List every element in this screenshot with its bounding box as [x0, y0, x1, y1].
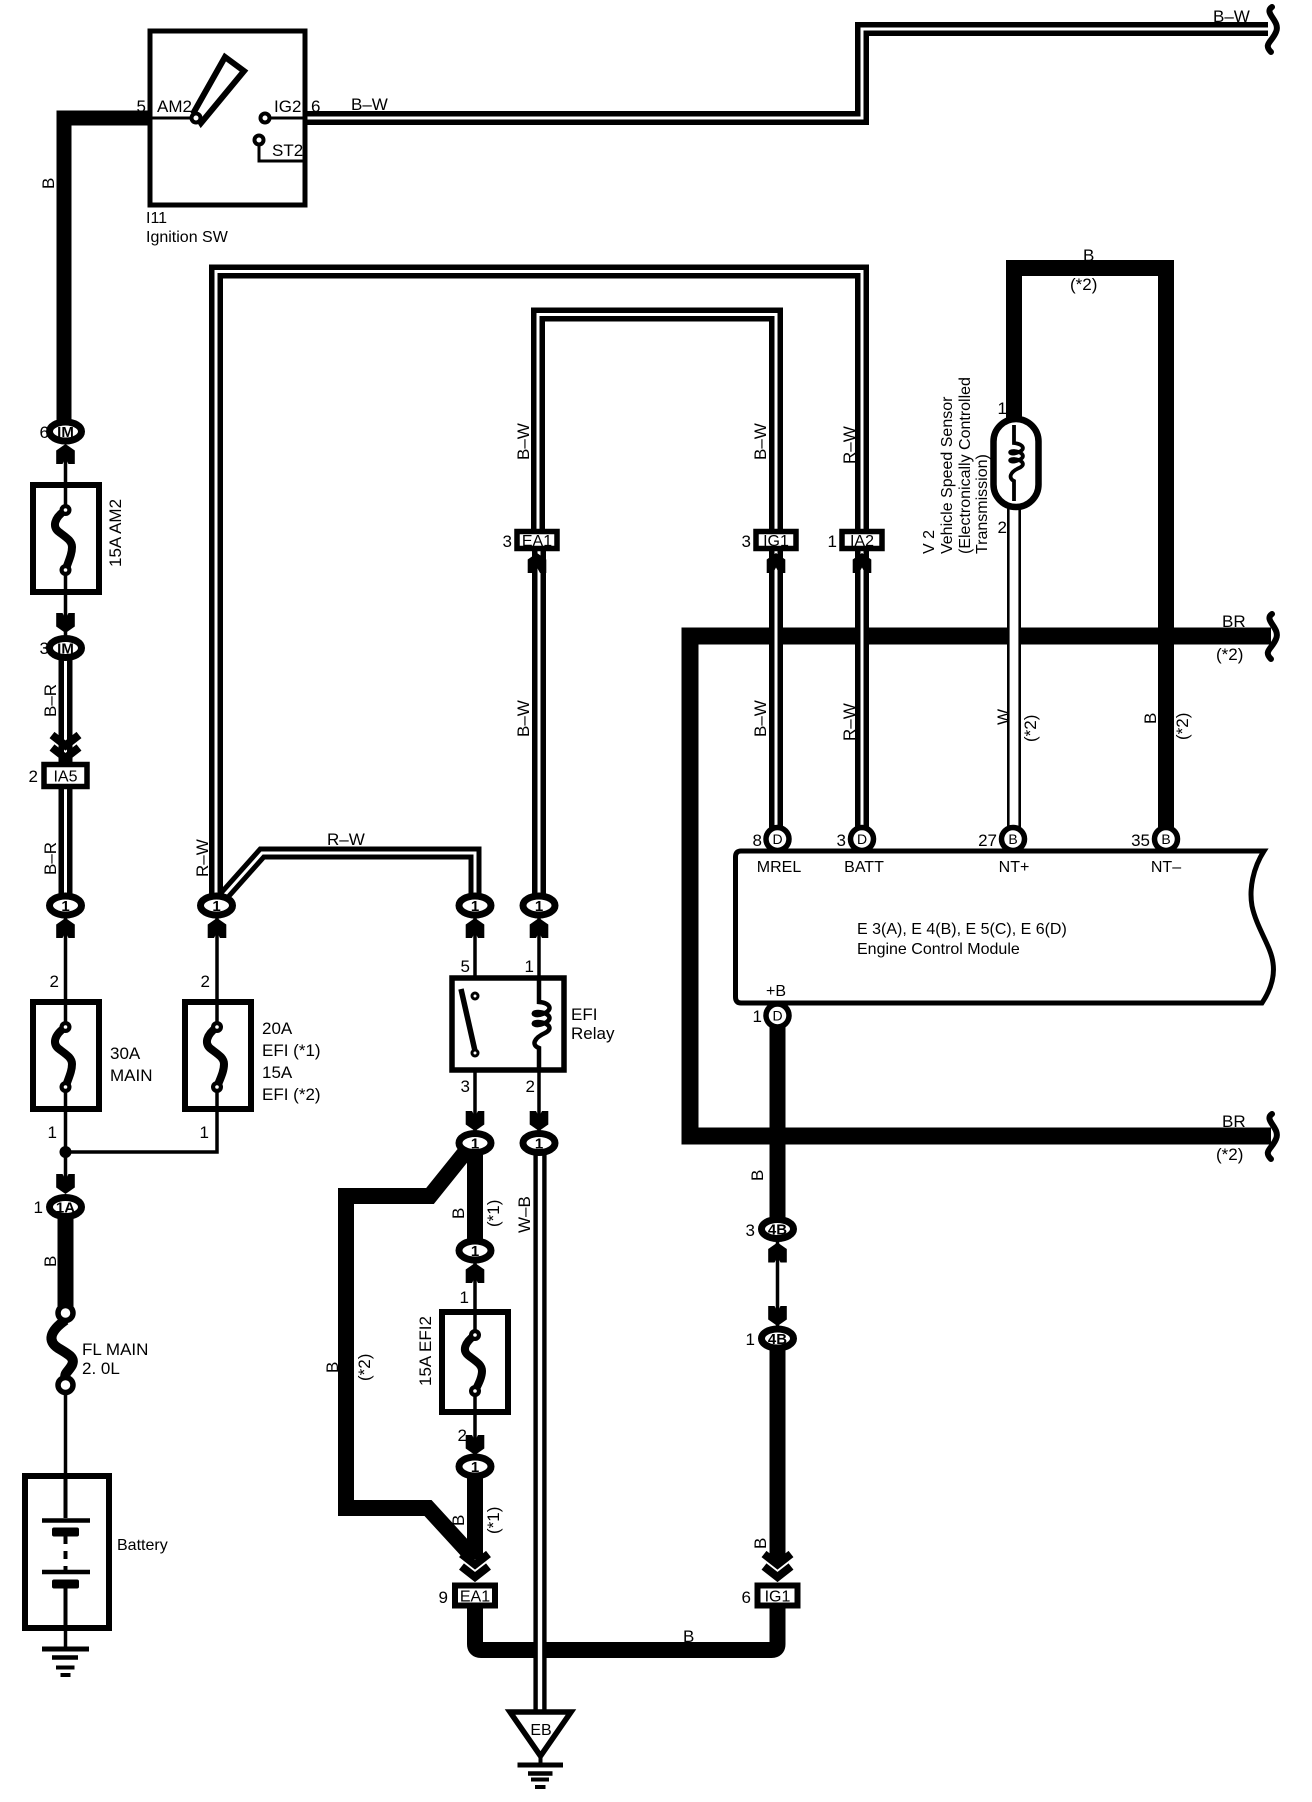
arrow down into 1 4B [768, 1306, 787, 1326]
svg-text:B: B [39, 178, 58, 189]
ignition switch AM2 contact [192, 114, 201, 123]
svg-text:1: 1 [998, 399, 1007, 418]
svg-text:3: 3 [503, 532, 512, 551]
torn end BR upper [1268, 614, 1277, 659]
svg-text:5: 5 [461, 957, 470, 976]
svg-text:2: 2 [201, 972, 210, 991]
wire oval to fuse 15A EFI2 [473, 1258, 477, 1340]
junction oval 1 (relay pin2) [523, 1134, 555, 1153]
svg-text:B: B [683, 1627, 694, 1646]
torn end B-W top right [1268, 7, 1277, 52]
wire junction 1 to fuse 20A EFI pin2 [215, 915, 219, 1030]
wire junction 1 to fuse 30A MAIN [64, 915, 68, 1030]
svg-text:1A: 1A [56, 1200, 75, 1217]
svg-text:2: 2 [458, 1426, 467, 1445]
svg-text:15A: 15A [262, 1063, 293, 1082]
svg-text:1: 1 [471, 898, 479, 915]
svg-text:1: 1 [746, 1330, 755, 1349]
svg-text:1: 1 [200, 1123, 209, 1142]
wire B(*1) relay pin3 to fuse EFI2 [467, 1150, 483, 1244]
connector 1 4B [762, 1329, 794, 1348]
svg-text:EFI (*2): EFI (*2) [262, 1085, 321, 1104]
svg-text:(*2): (*2) [355, 1354, 374, 1381]
svg-text:6: 6 [311, 97, 320, 116]
svg-text:NT–: NT– [1151, 859, 1181, 876]
svg-text:4B: 4B [768, 1331, 787, 1348]
svg-text:1: 1 [471, 1243, 479, 1260]
svg-text:B: B [1008, 831, 1017, 847]
fuse 30A MAIN [33, 1002, 99, 1109]
wire R-W outer loop junction to IA2 [216, 272, 862, 899]
svg-text:FL MAIN: FL MAIN [82, 1340, 148, 1359]
svg-text:IA5: IA5 [53, 769, 77, 786]
svg-text:BR: BR [1222, 612, 1246, 631]
svg-text:1: 1 [61, 898, 69, 915]
arrow up into junction 1 (20A EFI) [208, 918, 227, 938]
svg-text:(*1): (*1) [484, 1507, 503, 1534]
svg-text:4B: 4B [768, 1222, 787, 1239]
relay switch lever [461, 989, 475, 1051]
svg-text:Battery: Battery [117, 1537, 168, 1554]
connector 2 IA5 [44, 765, 87, 787]
svg-text:2: 2 [29, 767, 38, 786]
torn end BR lower [1268, 1114, 1277, 1159]
svg-text:Engine Control Module: Engine Control Module [857, 941, 1020, 958]
wire B-W EA1 to relay pin1 oval [532, 551, 546, 900]
svg-text:1: 1 [525, 957, 534, 976]
svg-text:15A AM2: 15A AM2 [106, 499, 125, 567]
EFI relay box [452, 978, 564, 1070]
connector 9 EA1 [455, 1586, 495, 1606]
arrow up into 6 IM [56, 444, 75, 464]
svg-text:B: B [449, 1208, 468, 1219]
svg-text:B: B [323, 1362, 342, 1373]
ignition switch ST2 contact [255, 136, 264, 145]
wire fuse 30A MAIN pin1 to junction dot [64, 1085, 68, 1152]
wire fuse EFI2 pin2 to oval [473, 1390, 477, 1460]
arrow down into oval relay pin3 [466, 1111, 485, 1131]
arrow up into oval relay pin5 [466, 918, 485, 938]
wire fuse 15A AM2 to 3 IM [64, 568, 68, 636]
svg-text:3: 3 [746, 1221, 755, 1240]
svg-text:EFI: EFI [571, 1005, 597, 1024]
svg-text:B–R: B–R [41, 684, 60, 717]
svg-text:6: 6 [742, 1588, 751, 1607]
svg-text:1: 1 [471, 1136, 479, 1153]
svg-text:EA1: EA1 [460, 1589, 490, 1606]
svg-text:(*2): (*2) [1216, 1145, 1243, 1164]
battery [25, 1476, 109, 1628]
svg-text:3: 3 [837, 831, 846, 850]
oval and box texts [56, 424, 787, 1476]
svg-text:15A EFI2: 15A EFI2 [416, 1316, 435, 1386]
svg-text:35: 35 [1131, 831, 1150, 850]
svg-text:(*2): (*2) [1070, 275, 1097, 294]
svg-text:B: B [41, 1256, 60, 1267]
junction oval 1 (relay pin3) [459, 1134, 491, 1153]
svg-text:IG2: IG2 [274, 97, 301, 116]
svg-text:BR: BR [1222, 1112, 1246, 1131]
svg-text:B: B [1161, 831, 1170, 847]
svg-text:EA1: EA1 [522, 533, 552, 550]
svg-text:D: D [772, 831, 782, 847]
svg-text:8: 8 [753, 831, 762, 850]
connector 3 IG1 [756, 532, 796, 549]
double arrow down into 9 EA1 [462, 1554, 489, 1577]
svg-text:6: 6 [40, 423, 49, 442]
svg-text:W: W [994, 709, 1013, 725]
svg-text:B–W: B–W [514, 700, 533, 737]
arrow up into oval relay pin1 [530, 918, 549, 938]
wire B(*2) V2 pin1 to ECM NT- [1014, 268, 1166, 828]
arrow down into oval below fuse EFI2 [466, 1435, 485, 1455]
arrow down into 3 IM [56, 613, 75, 633]
svg-text:R–W: R–W [327, 830, 365, 849]
ECM pin 35 B NT- [1155, 828, 1178, 851]
svg-text:Ignition SW: Ignition SW [146, 229, 229, 246]
connector 6 IM [50, 422, 82, 441]
wire B(*2) bypass loop [346, 1150, 472, 1556]
double arrow down into 6 IG1 [764, 1554, 791, 1577]
junction oval 1 (above fuse EFI2) [459, 1241, 491, 1260]
ignition switch key lever [194, 57, 244, 123]
junction oval 1 (relay pin1) [523, 896, 555, 915]
ignition switch IG2 contact [261, 114, 270, 123]
relay coil [534, 978, 550, 1070]
arrow down into 1A [56, 1174, 75, 1194]
svg-text:2: 2 [50, 972, 59, 991]
svg-text:1: 1 [535, 898, 543, 915]
svg-text:AM2: AM2 [157, 97, 192, 116]
arrow up into 3 4B [768, 1243, 787, 1263]
svg-text:1: 1 [753, 1007, 762, 1026]
svg-text:1: 1 [34, 1198, 43, 1217]
svg-text:1: 1 [48, 1123, 57, 1142]
svg-text:1: 1 [471, 1459, 479, 1476]
svg-text:R–W: R–W [840, 703, 859, 741]
wire B-W IG1 to ECM MREL [769, 551, 783, 828]
svg-text:W–B: W–B [515, 1196, 534, 1233]
wire B(*1) fuse EFI2 to 9 EA1 [467, 1473, 483, 1559]
arrow up into oval above fuse EFI2 [466, 1263, 485, 1283]
svg-text:IM: IM [57, 424, 74, 441]
wire FL MAIN to battery [64, 1390, 68, 1480]
svg-text:1: 1 [460, 1288, 469, 1307]
svg-text:5: 5 [137, 97, 146, 116]
svg-text:27: 27 [978, 831, 997, 850]
svg-text:(*2): (*2) [1173, 713, 1192, 740]
svg-text:ST2: ST2 [272, 141, 303, 160]
svg-text:+B: +B [766, 983, 786, 1000]
svg-text:B–W: B–W [351, 95, 388, 114]
svg-text:9: 9 [439, 1588, 448, 1607]
ECM pin 1 D +B [766, 1004, 789, 1027]
svg-text:30A: 30A [110, 1044, 141, 1063]
svg-text:IG1: IG1 [765, 1589, 791, 1606]
svg-text:2: 2 [526, 1077, 535, 1096]
wire 6 IM to fuse 15A AM2 [64, 450, 68, 512]
wire BR(*2) loop [690, 636, 1271, 1136]
svg-text:NT+: NT+ [999, 859, 1030, 876]
svg-text:2: 2 [998, 518, 1007, 537]
fuse 20A EFI [185, 1002, 251, 1109]
svg-text:3: 3 [40, 639, 49, 658]
EB ground triangle [510, 1712, 571, 1756]
svg-text:(*2): (*2) [1021, 715, 1040, 742]
wire B ECM +B to 3 4B [770, 1022, 786, 1222]
ground below battery [42, 1649, 89, 1675]
junction oval 1 (below fuse EFI2) [459, 1457, 491, 1476]
arrow down into oval relay pin2 [530, 1111, 549, 1131]
wire R-W branch to EFI relay pin5 [221, 853, 475, 899]
wire B bottom EA1 to IG1 [475, 1605, 778, 1650]
junction dot [60, 1146, 72, 1158]
wire junction dot to fuse 20A EFI [66, 1085, 218, 1152]
V2 vehicle speed sensor capsule [994, 419, 1039, 507]
junction oval 1 (20A EFI) [201, 896, 233, 915]
connector 3 EA1 [517, 532, 557, 549]
fusible link FL MAIN 2.0L [51, 1306, 73, 1393]
wire W V2 pin2 to ECM NT+ [1009, 505, 1020, 828]
svg-text:20A: 20A [262, 1019, 293, 1038]
svg-text:(*2): (*2) [1216, 645, 1243, 664]
ECM pin letters [772, 831, 1170, 1024]
svg-text:EFI (*1): EFI (*1) [262, 1041, 321, 1060]
ignition switch internal wires [150, 117, 305, 120]
arrow up into junction 1 left [56, 918, 75, 938]
svg-text:E 3(A), E 4(B), E 5(C), E 6(D): E 3(A), E 4(B), E 5(C), E 6(D) [857, 921, 1067, 938]
svg-text:Transmission): Transmission) [974, 454, 991, 554]
svg-text:R–W: R–W [840, 426, 859, 464]
wire B-R 3 IM to IA5 to junction 1 [59, 660, 73, 898]
svg-text:B: B [751, 1538, 770, 1549]
svg-text:Vehicle Speed Sensor: Vehicle Speed Sensor [939, 396, 956, 554]
svg-text:MAIN: MAIN [110, 1066, 153, 1085]
svg-text:R–W: R–W [193, 839, 212, 877]
svg-text:B–W: B–W [1213, 7, 1250, 26]
wire junction dot to 1A [64, 1152, 68, 1180]
svg-text:3: 3 [461, 1077, 470, 1096]
svg-text:3: 3 [742, 532, 751, 551]
svg-text:I11: I11 [146, 210, 167, 227]
connector 3 4B [762, 1220, 794, 1239]
svg-text:1: 1 [828, 532, 837, 551]
svg-text:EB: EB [530, 1722, 551, 1739]
wire B-W IG2 to top right [305, 29, 1268, 118]
wire 3 4B to 1 4B [776, 1238, 780, 1330]
wire oval to relay pin5 [473, 915, 477, 993]
wire R-W IA2 to ECM BATT [855, 551, 869, 828]
arrow up into 3 EA1 [528, 553, 547, 573]
fuse 15A AM2 [33, 485, 99, 592]
wire B 1 4B to 6 IG1 [770, 1345, 786, 1560]
wire W-B relay pin2 to EB [536, 1150, 545, 1714]
ECM pin 8 D MREL [766, 828, 789, 851]
arrow up into 3 IG1 [767, 553, 786, 573]
svg-text:D: D [772, 1008, 782, 1024]
arrow up into 1 IA2 [853, 553, 872, 573]
svg-text:B: B [1083, 246, 1094, 265]
svg-text:1: 1 [212, 898, 220, 915]
svg-text:IA2: IA2 [850, 533, 874, 550]
svg-text:(*1): (*1) [484, 1200, 503, 1227]
connector 6 IG1 [758, 1586, 798, 1606]
ECM box [736, 851, 1274, 1003]
svg-text:1: 1 [535, 1136, 543, 1153]
wire oval to relay pin1 [537, 915, 541, 980]
EB ground symbol [518, 1754, 564, 1787]
junction oval 1 (relay pin5) [459, 896, 491, 915]
ECM pin 27 B NT+ [1002, 828, 1025, 851]
svg-text:D: D [857, 831, 867, 847]
svg-text:B: B [748, 1170, 767, 1181]
svg-text:V 2: V 2 [921, 530, 938, 554]
wire battery to ground [64, 1590, 68, 1649]
svg-text:2. 0L: 2. 0L [82, 1359, 120, 1378]
svg-text:B–W: B–W [751, 423, 770, 460]
svg-text:B: B [449, 1515, 468, 1526]
svg-text:BATT: BATT [844, 859, 884, 876]
wire relay pin3 to oval [473, 1056, 477, 1135]
svg-text:B: B [1141, 713, 1160, 724]
svg-text:MREL: MREL [757, 859, 802, 876]
svg-text:(Electronically Controlled: (Electronically Controlled [957, 377, 974, 554]
ECM pin 3 D BATT [851, 828, 874, 851]
wire B ignition AM2 to 6 IM [64, 118, 150, 425]
wire B-W inner loop EA1 to IG1 [538, 315, 776, 541]
svg-text:IG1: IG1 [763, 533, 789, 550]
svg-text:B–W: B–W [514, 423, 533, 460]
svg-text:Relay: Relay [571, 1024, 615, 1043]
svg-text:B–W: B–W [751, 700, 770, 737]
connector 3 IM [50, 639, 82, 658]
ignition switch I11 box [150, 31, 305, 205]
wire relay pin2 to oval [537, 1048, 541, 1135]
connector 1 1A [50, 1198, 82, 1217]
double arrow down into 2 IA5 [52, 735, 79, 758]
svg-text:IM: IM [57, 641, 74, 658]
junction oval 1 (30A MAIN) [50, 896, 82, 915]
wire B 1A to FL MAIN [58, 1214, 74, 1313]
connector 1 IA2 [842, 532, 882, 549]
fuse 15A EFI2 [442, 1312, 508, 1412]
svg-text:B–R: B–R [41, 842, 60, 875]
